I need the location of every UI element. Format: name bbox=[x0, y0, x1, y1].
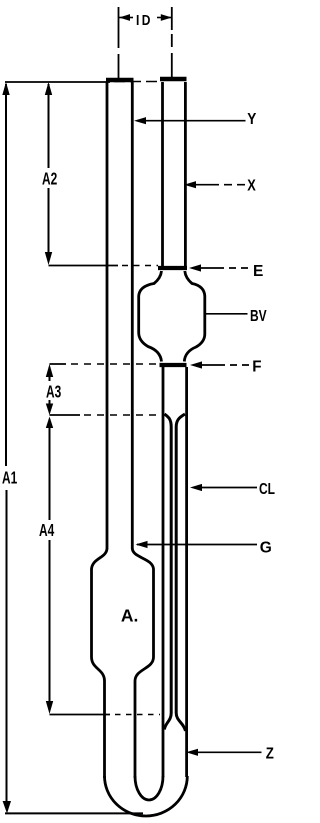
svg-text:X: X bbox=[247, 177, 256, 195]
svg-text:A2: A2 bbox=[42, 169, 57, 189]
svg-text:A4: A4 bbox=[39, 521, 55, 541]
svg-text:A.: A. bbox=[121, 605, 138, 625]
svg-text:A3: A3 bbox=[46, 382, 61, 402]
svg-text:Y: Y bbox=[247, 111, 256, 128]
svg-text:Z: Z bbox=[266, 745, 274, 762]
svg-text:CL: CL bbox=[259, 479, 275, 497]
svg-text:G: G bbox=[260, 539, 272, 556]
svg-text:F: F bbox=[252, 358, 261, 375]
svg-text:E: E bbox=[253, 263, 263, 280]
svg-text:ID: ID bbox=[136, 12, 153, 29]
svg-text:A1: A1 bbox=[2, 468, 17, 488]
svg-text:BV: BV bbox=[250, 306, 267, 324]
